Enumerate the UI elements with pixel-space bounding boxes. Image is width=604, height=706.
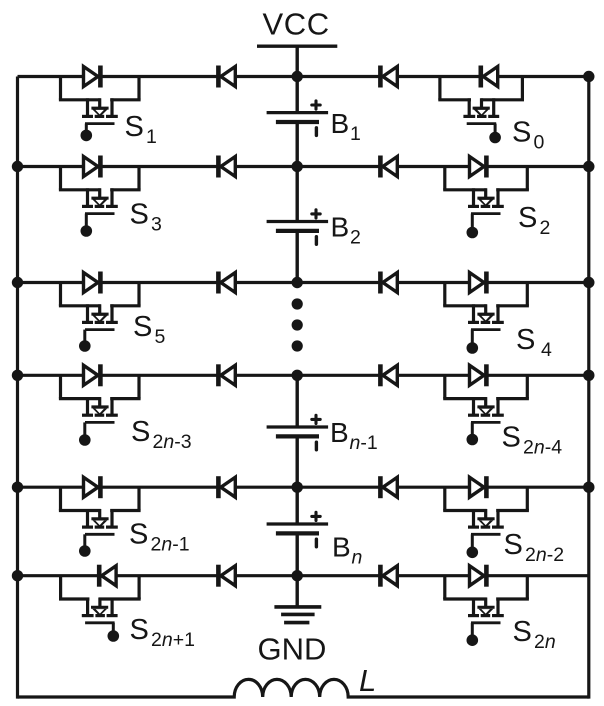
svg-text:GND: GND bbox=[258, 632, 327, 667]
svg-text:S: S bbox=[516, 324, 535, 356]
svg-text:S: S bbox=[502, 422, 521, 454]
svg-text:1: 1 bbox=[350, 123, 361, 145]
svg-text:S: S bbox=[131, 416, 150, 448]
svg-text:S: S bbox=[504, 529, 523, 561]
svg-text:S: S bbox=[518, 202, 537, 234]
svg-text:B: B bbox=[331, 108, 350, 139]
svg-text:B: B bbox=[331, 212, 350, 243]
svg-text:5: 5 bbox=[155, 326, 166, 348]
svg-text:VCC: VCC bbox=[263, 7, 330, 42]
svg-text:S: S bbox=[130, 614, 149, 646]
svg-text:2n-4: 2n-4 bbox=[523, 437, 562, 459]
svg-text:2n-2: 2n-2 bbox=[525, 544, 564, 566]
svg-text:S: S bbox=[129, 519, 148, 551]
svg-text:2n-1: 2n-1 bbox=[151, 534, 190, 556]
svg-text:2n: 2n bbox=[534, 631, 556, 653]
svg-text:S: S bbox=[513, 616, 532, 648]
svg-text:2n+1: 2n+1 bbox=[151, 629, 195, 651]
svg-text:2n-3: 2n-3 bbox=[153, 431, 192, 453]
svg-text:L: L bbox=[359, 663, 376, 698]
svg-text:S: S bbox=[130, 199, 149, 231]
svg-text:2: 2 bbox=[540, 217, 551, 239]
svg-text:S: S bbox=[125, 111, 144, 143]
svg-text:S: S bbox=[512, 117, 531, 149]
svg-text:4: 4 bbox=[541, 339, 552, 361]
svg-text:S: S bbox=[133, 311, 152, 343]
svg-text:n-1: n-1 bbox=[350, 432, 378, 454]
svg-text:B: B bbox=[330, 417, 349, 448]
svg-text:2: 2 bbox=[350, 227, 361, 249]
svg-text:0: 0 bbox=[534, 132, 545, 154]
svg-text:B: B bbox=[332, 532, 351, 563]
svg-text:1: 1 bbox=[146, 126, 157, 148]
svg-text:n: n bbox=[352, 547, 363, 569]
svg-text:3: 3 bbox=[151, 214, 162, 236]
